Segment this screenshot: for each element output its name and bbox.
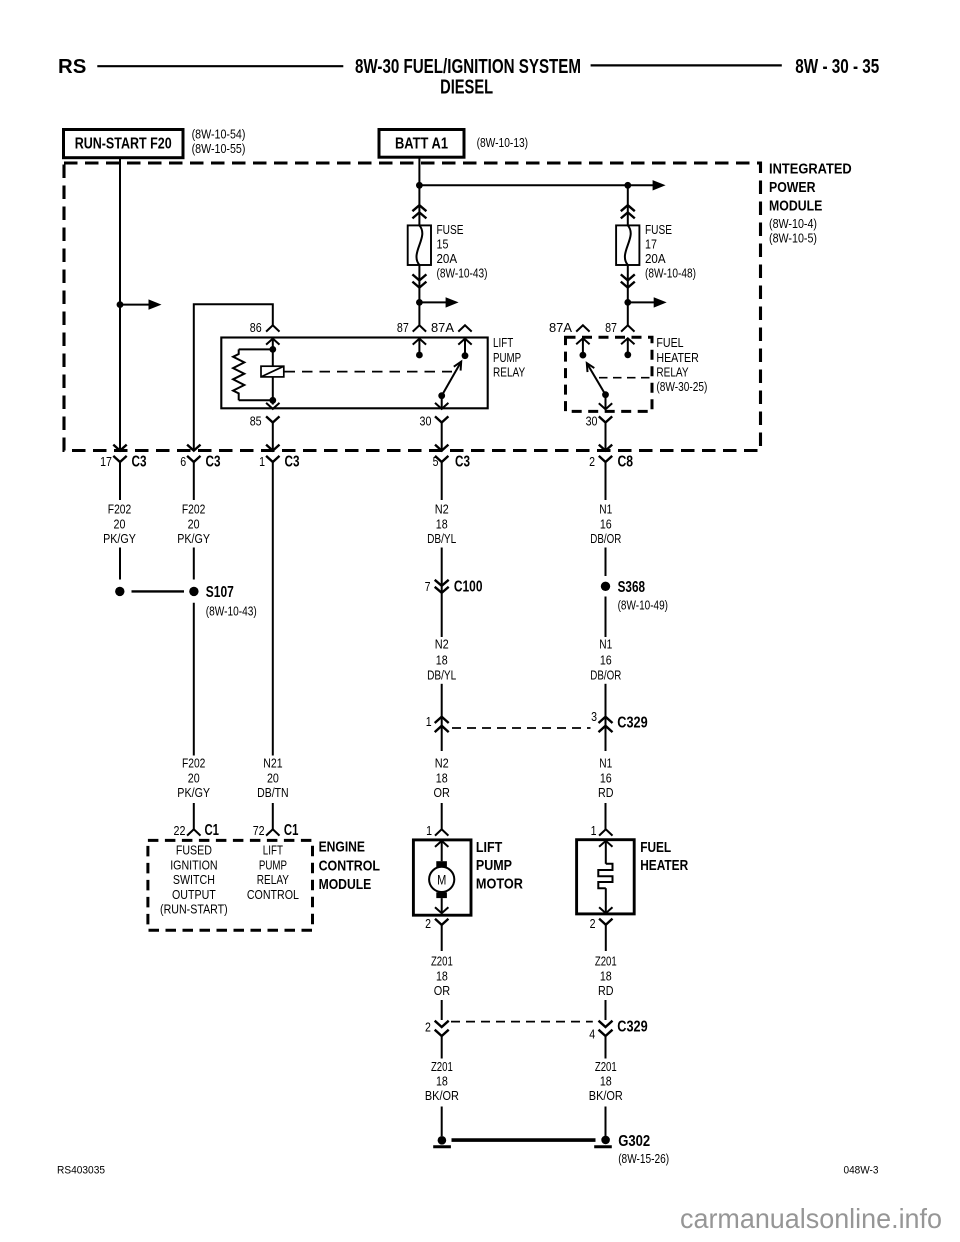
- svg-text:N2: N2: [435, 756, 449, 771]
- fuel relay pin 87 connector: [621, 325, 634, 331]
- connector chevrons above fuse 17: [621, 205, 635, 211]
- svg-text:20: 20: [267, 770, 279, 785]
- wire C3-6 to splice S107: [193, 462, 195, 500]
- svg-text:F202: F202: [182, 502, 205, 517]
- svg-text:2: 2: [425, 916, 431, 931]
- svg-text:FUSE: FUSE: [645, 222, 672, 237]
- svg-text:ENGINE: ENGINE: [319, 839, 365, 856]
- svg-text:S368: S368: [618, 579, 646, 596]
- svg-text:(8W-30-25): (8W-30-25): [656, 379, 707, 394]
- connector C3 pin 5: [435, 456, 448, 462]
- svg-text:PUMP: PUMP: [493, 350, 521, 365]
- svg-text:LIFT: LIFT: [493, 335, 513, 350]
- svg-text:MOTOR: MOTOR: [476, 876, 523, 893]
- node below fuse 17: [624, 299, 631, 306]
- svg-text:PK/GY: PK/GY: [177, 531, 210, 546]
- svg-text:DB/OR: DB/OR: [590, 667, 621, 682]
- svg-text:C3: C3: [285, 454, 300, 471]
- relay coil branch: [272, 339, 274, 367]
- lift pump motor box: [413, 840, 471, 915]
- svg-text:Z201: Z201: [595, 1059, 617, 1074]
- svg-text:LIFT: LIFT: [476, 839, 502, 856]
- svg-text:8W-30 FUEL/IGNITION SYSTEM: 8W-30 FUEL/IGNITION SYSTEM: [355, 56, 581, 78]
- ground G302: [438, 1136, 447, 1145]
- svg-text:87: 87: [605, 320, 617, 335]
- svg-text:16: 16: [600, 770, 612, 785]
- branch arrow below fuse 15: [419, 301, 447, 303]
- connector C329 pin 3: [605, 712, 607, 751]
- svg-text:C3: C3: [455, 454, 470, 471]
- svg-text:C8: C8: [618, 454, 634, 471]
- svg-text:DB/YL: DB/YL: [427, 667, 456, 682]
- svg-text:5: 5: [433, 454, 439, 469]
- connector C3 pin 6: [187, 456, 200, 462]
- svg-text:IGNITION: IGNITION: [170, 857, 217, 872]
- wire fuse 17 to fuel heater relay pin 87: [627, 265, 629, 325]
- svg-text:HEATER: HEATER: [640, 857, 688, 874]
- fuel relay coil dashed link: [599, 377, 652, 379]
- svg-text:16: 16: [600, 516, 612, 531]
- svg-text:4: 4: [589, 1026, 595, 1041]
- svg-text:18: 18: [436, 770, 448, 785]
- svg-text:Z201: Z201: [595, 953, 617, 968]
- svg-text:DB/TN: DB/TN: [257, 785, 289, 800]
- svg-text:20A: 20A: [437, 251, 458, 266]
- relay pin 30: [441, 396, 443, 409]
- svg-text:DB/OR: DB/OR: [590, 531, 621, 546]
- svg-text:72: 72: [253, 823, 265, 838]
- svg-text:(8W-10-43): (8W-10-43): [437, 266, 488, 281]
- lift pump relay box: [221, 338, 487, 409]
- svg-text:(8W-10-54): (8W-10-54): [192, 127, 246, 142]
- svg-text:N1: N1: [599, 756, 612, 771]
- svg-text:FUSED: FUSED: [176, 843, 212, 858]
- svg-text:G302: G302: [618, 1133, 650, 1150]
- svg-text:HEATER: HEATER: [656, 350, 698, 365]
- relay coil: [261, 366, 284, 377]
- wire fuse 15 to relay pin 87: [418, 265, 420, 325]
- wire C8-2 to splice S368: [605, 462, 607, 500]
- fuse box BATT A1: [379, 130, 464, 158]
- svg-text:C3: C3: [206, 454, 221, 471]
- connector C1 pin 72: [266, 829, 279, 835]
- connector C329 pin 1: [441, 712, 443, 751]
- svg-text:(8W-10-4): (8W-10-4): [769, 216, 817, 231]
- svg-text:18: 18: [436, 652, 448, 667]
- svg-text:OUTPUT: OUTPUT: [172, 887, 216, 902]
- svg-text:SWITCH: SWITCH: [173, 872, 215, 887]
- C329 dashed connector line row 1: [452, 727, 591, 729]
- connector C8 pin 2: [599, 456, 612, 462]
- engine control module dashed box: [148, 840, 313, 930]
- svg-text:N1: N1: [599, 502, 612, 517]
- svg-text:(8W-10-49): (8W-10-49): [618, 598, 668, 613]
- svg-text:C3: C3: [132, 454, 147, 471]
- svg-text:PUMP: PUMP: [259, 857, 287, 872]
- splice S368: [601, 582, 610, 591]
- svg-text:FUEL: FUEL: [640, 839, 671, 856]
- svg-text:30: 30: [420, 414, 432, 429]
- svg-text:POWER: POWER: [769, 179, 816, 196]
- svg-text:1: 1: [259, 454, 265, 469]
- svg-text:CONTROL: CONTROL: [247, 887, 299, 902]
- svg-text:RELAY: RELAY: [493, 364, 525, 379]
- svg-text:RD: RD: [598, 983, 614, 998]
- svg-text:FUSE: FUSE: [437, 222, 464, 237]
- svg-text:Z201: Z201: [431, 1059, 453, 1074]
- svg-text:PUMP: PUMP: [476, 857, 512, 874]
- node below fuse 15: [416, 299, 423, 306]
- wire C3-17 to splice S107: [119, 462, 121, 500]
- fuel relay pin 30: [605, 395, 607, 410]
- splice S107: [115, 587, 124, 596]
- svg-text:86: 86: [250, 320, 262, 335]
- relay pin 87 connector: [413, 325, 426, 331]
- svg-text:RS403035: RS403035: [57, 1165, 105, 1177]
- svg-text:N2: N2: [435, 636, 449, 651]
- svg-text:C1: C1: [284, 822, 299, 839]
- svg-text:C1: C1: [205, 822, 220, 839]
- connector chevrons below fuse 17: [621, 274, 635, 280]
- connector C329 pin 4: [599, 1021, 613, 1027]
- svg-text:MODULE: MODULE: [769, 198, 822, 215]
- node fuse 17 feed: [624, 182, 631, 189]
- connector C1 pin 22: [187, 829, 200, 835]
- relay pin 86 connector: [266, 325, 279, 331]
- fuel relay switch arm: [587, 363, 606, 395]
- relay coil to switch dashed link: [285, 371, 453, 373]
- svg-text:18: 18: [600, 969, 612, 984]
- wire relay pin 85 to C3 pin 1: [272, 423, 274, 451]
- svg-text:RELAY: RELAY: [257, 872, 289, 887]
- svg-text:M: M: [437, 872, 446, 887]
- svg-text:17: 17: [100, 454, 112, 469]
- fuel heater relay dashed box: [566, 337, 653, 411]
- svg-text:PK/GY: PK/GY: [103, 531, 136, 546]
- ground symbol left: [433, 1145, 451, 1148]
- node on run-start wire: [117, 301, 124, 308]
- svg-text:20: 20: [188, 516, 200, 531]
- branch arrow below fuse 17: [628, 301, 656, 303]
- svg-text:DB/YL: DB/YL: [427, 531, 456, 546]
- svg-text:N2: N2: [435, 502, 449, 517]
- svg-text:RS: RS: [58, 56, 86, 78]
- wire C3-1 to ECM C1 pin 72: [272, 462, 274, 756]
- svg-text:F202: F202: [108, 502, 131, 517]
- fuse box RUN-START F20: [64, 130, 184, 158]
- relay switch arm: [442, 362, 462, 396]
- svg-text:18: 18: [436, 969, 448, 984]
- fuel relay pin 87A connector: [576, 325, 589, 331]
- ground symbol right: [594, 1145, 612, 1148]
- svg-text:18: 18: [436, 516, 448, 531]
- svg-text:MODULE: MODULE: [319, 876, 372, 893]
- svg-text:(8W-10-55): (8W-10-55): [192, 141, 246, 156]
- svg-text:BATT A1: BATT A1: [395, 135, 448, 152]
- svg-text:PK/GY: PK/GY: [177, 785, 210, 800]
- svg-text:18: 18: [600, 1074, 612, 1089]
- svg-text:20: 20: [188, 770, 200, 785]
- svg-text:2: 2: [590, 916, 596, 931]
- svg-text:(8W-10-48): (8W-10-48): [645, 266, 696, 281]
- svg-text:DIESEL: DIESEL: [440, 76, 493, 98]
- fuel heater pin 1: [599, 829, 612, 835]
- svg-text:30: 30: [586, 414, 598, 429]
- integrated power module dashed boundary: [64, 163, 761, 451]
- arrowhead at C3 pin 17: [113, 445, 126, 451]
- connector C3 pin 17: [113, 456, 126, 462]
- svg-text:carmanualsonline.info: carmanualsonline.info: [680, 1203, 942, 1234]
- relay pin 87A connector: [458, 325, 471, 331]
- svg-text:20: 20: [114, 516, 126, 531]
- connector C100 pin 7: [441, 580, 443, 637]
- svg-text:2: 2: [589, 454, 595, 469]
- svg-text:F202: F202: [182, 756, 205, 771]
- svg-text:INTEGRATED: INTEGRATED: [769, 161, 852, 178]
- arrowhead relay pin 85: [266, 403, 279, 409]
- connector chevrons below fuse 15: [412, 274, 426, 280]
- svg-text:6: 6: [180, 454, 186, 469]
- svg-text:1: 1: [591, 823, 597, 838]
- svg-text:RELAY: RELAY: [656, 364, 688, 379]
- connector C329 pin 2: [435, 1021, 449, 1027]
- wire RUN-START F20 to C3 pin 17: [119, 158, 121, 451]
- connector chevrons above fuse 15: [412, 205, 426, 211]
- svg-text:LIFT: LIFT: [263, 843, 283, 858]
- svg-text:N21: N21: [263, 756, 282, 771]
- svg-text:2: 2: [425, 1019, 431, 1034]
- heater pin 2: [599, 919, 612, 925]
- svg-text:3: 3: [591, 709, 597, 724]
- motor armature M: [429, 867, 454, 892]
- connector C3 pin 1: [266, 456, 279, 462]
- svg-text:C329: C329: [617, 715, 648, 732]
- svg-text:1: 1: [426, 714, 432, 729]
- fuel heater box: [577, 840, 635, 914]
- wire fuel relay pin 30 to C8 pin 2: [605, 423, 607, 451]
- wire relay pin 30 to C3 pin 5: [441, 423, 443, 451]
- svg-text:OR: OR: [434, 983, 450, 998]
- svg-text:RUN-START F20: RUN-START F20: [75, 135, 172, 152]
- svg-text:Z201: Z201: [431, 953, 453, 968]
- svg-text:CONTROL: CONTROL: [319, 857, 380, 874]
- svg-text:(RUN-START): (RUN-START): [160, 902, 228, 917]
- node batt feed: [416, 182, 423, 189]
- svg-text:20A: 20A: [645, 251, 666, 266]
- svg-text:(8W-10-5): (8W-10-5): [769, 230, 817, 245]
- motor brush top: [436, 861, 447, 867]
- svg-text:048W-3: 048W-3: [844, 1165, 879, 1177]
- motor pin 2: [435, 919, 448, 925]
- motor brush bottom: [436, 892, 447, 898]
- svg-text:(8W-10-43): (8W-10-43): [206, 604, 257, 619]
- C329 dashed connector line row 2: [451, 1021, 593, 1023]
- svg-text:S107: S107: [206, 584, 234, 601]
- svg-text:85: 85: [250, 414, 262, 429]
- svg-text:87: 87: [397, 320, 409, 335]
- relay resistor: [239, 348, 273, 350]
- heater element: [598, 864, 612, 888]
- svg-text:OR: OR: [434, 785, 450, 800]
- arrowhead at C3 pin 6: [187, 445, 200, 451]
- fuse 17: [616, 225, 639, 265]
- svg-text:7: 7: [425, 579, 431, 594]
- svg-text:BK/OR: BK/OR: [589, 1088, 623, 1103]
- svg-text:FUEL: FUEL: [656, 335, 683, 350]
- svg-text:1: 1: [426, 823, 432, 838]
- svg-text:C100: C100: [454, 579, 483, 596]
- wire relay pin 86 to C3 pin 6: [194, 304, 273, 450]
- svg-text:15: 15: [437, 237, 449, 252]
- wire C3-5 to lift pump motor: [441, 462, 443, 500]
- svg-text:16: 16: [600, 652, 612, 667]
- fuse 15: [408, 225, 431, 265]
- svg-text:BK/OR: BK/OR: [425, 1088, 459, 1103]
- svg-text:8W - 30 - 35: 8W - 30 - 35: [795, 56, 879, 78]
- wire BATT A1 to fuse 15: [418, 157, 420, 225]
- svg-text:18: 18: [436, 1074, 448, 1089]
- wire batt feed bus to fuse 17: [419, 184, 656, 186]
- svg-text:22: 22: [174, 823, 186, 838]
- svg-text:87A: 87A: [549, 320, 572, 335]
- svg-text:N1: N1: [599, 636, 612, 651]
- wire S107 to ECM C1 pin 22: [193, 603, 195, 756]
- svg-text:RD: RD: [598, 785, 614, 800]
- svg-text:(8W-15-26): (8W-15-26): [618, 1151, 669, 1166]
- lift pump motor pin 1: [435, 829, 448, 835]
- svg-text:17: 17: [645, 237, 657, 252]
- relay pin 85 connector: [266, 416, 279, 422]
- svg-text:C329: C329: [617, 1019, 648, 1036]
- svg-text:(8W-10-13): (8W-10-13): [477, 135, 528, 150]
- svg-text:87A: 87A: [431, 320, 454, 335]
- branch arrow from run-start wire: [120, 304, 151, 306]
